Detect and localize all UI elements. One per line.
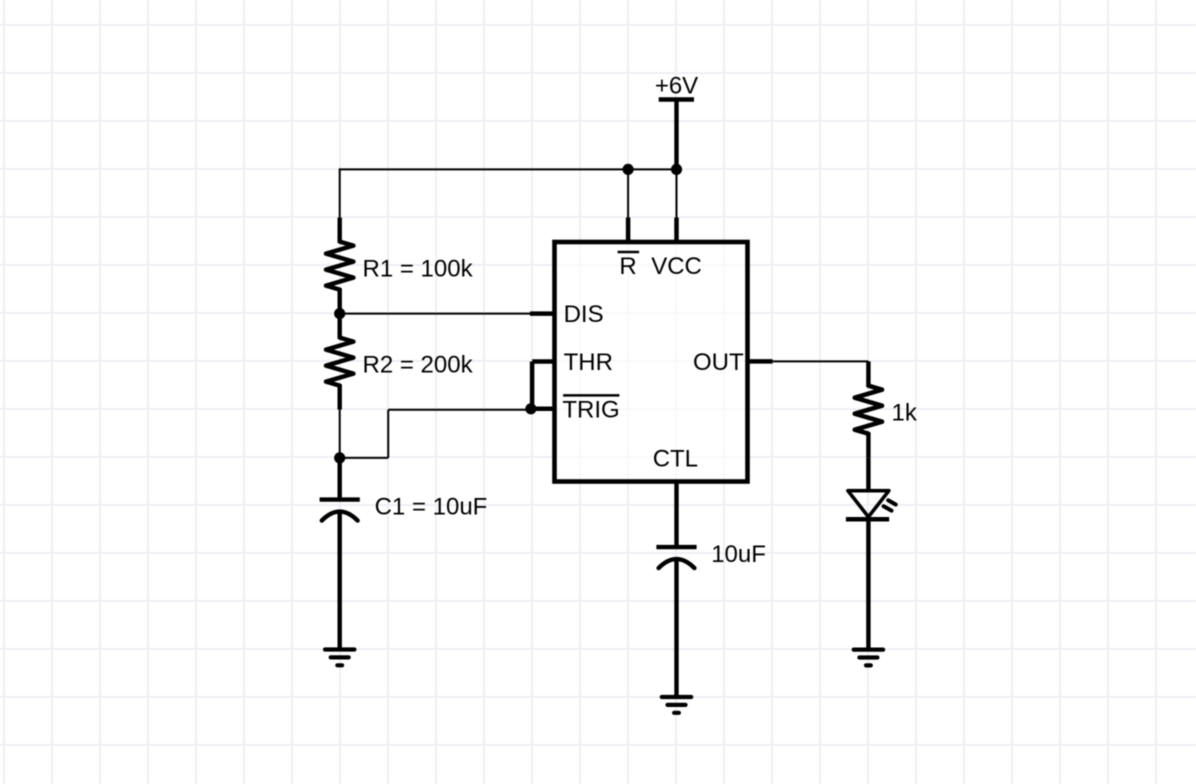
overline of TRIG label [563, 394, 619, 397]
svg-text:R2 = 200k: R2 = 200k [363, 352, 474, 379]
svg-text:R1 = 100k: R1 = 100k [363, 256, 474, 283]
resistor R2 zigzag [326, 338, 353, 386]
svg-text:C1 = 10uF: C1 = 10uF [375, 494, 488, 521]
capacitor C1 lead bottom [338, 513, 342, 650]
resistor R1 lead top [338, 218, 342, 243]
svg-text:DIS: DIS [564, 301, 604, 328]
jumper THR to TRIG [530, 362, 535, 410]
junction dot: R2/C1 [334, 452, 345, 463]
resistor R2 lead bottom [338, 385, 342, 410]
wire: R2 bottom vertical [339, 410, 341, 458]
wire: R1 top vertical [339, 168, 341, 218]
wire: VCC pin vertical [676, 169, 678, 219]
IC pin stub: reset [626, 218, 631, 244]
wire: trig jog horizontal lower [340, 457, 389, 459]
wire: trig horizontal to pin [388, 409, 531, 411]
wire: DIS horizontal [340, 313, 531, 315]
IC 555 body U1 [555, 242, 748, 482]
ground under LED [854, 650, 883, 666]
resistor R3 1k zigzag [855, 386, 882, 434]
junction dot: bus / VCC [671, 164, 682, 175]
capacitor C2 bottom curved plate [659, 559, 695, 568]
svg-text:CTL: CTL [653, 446, 698, 473]
LED D1 cathode bar [846, 517, 889, 522]
LED D1 ray 1 [888, 500, 896, 504]
resistor R2 lead top [338, 314, 342, 339]
IC pin stub: DIS [530, 311, 556, 316]
power +6V bar [659, 97, 694, 101]
LED D1 lead top [866, 458, 870, 492]
capacitor C1 bottom curved plate [322, 512, 358, 521]
junction dot: R1/R2/DIS [334, 308, 345, 319]
LED D1 lead bottom [866, 519, 870, 649]
LED D1 ray 2 [884, 506, 892, 510]
IC pin stub: TRIG [531, 407, 556, 412]
capacitor C1 lead top [338, 458, 342, 498]
wire: OUT horizontal [773, 360, 869, 362]
resistor R3 1k lead top [866, 361, 870, 386]
IC pin stub: OUT [746, 359, 773, 364]
svg-text:VCC: VCC [651, 253, 702, 280]
resistor R3 1k lead bottom [866, 433, 870, 458]
svg-text:1k: 1k [892, 400, 918, 427]
ground under C2 [662, 697, 691, 713]
resistor R1 zigzag [326, 242, 353, 290]
overline of R (reset pin label) [618, 251, 640, 254]
svg-text:TRIG: TRIG [562, 397, 619, 424]
resistor R1 lead bottom [338, 289, 342, 314]
ground under C1 [325, 650, 354, 666]
IC pin stub: VCC [674, 218, 679, 244]
wire: top horizontal bus from R1 to VCC [340, 168, 677, 170]
wire: trig jog vertical [387, 410, 389, 458]
IC pin stub: THR [532, 359, 556, 364]
wire: reset pin vertical [627, 169, 629, 219]
IC pin stub: CTL (merges into cap lead) [674, 482, 678, 547]
svg-text:+6V: +6V [655, 73, 698, 100]
capacitor C1 top plate [320, 497, 360, 501]
capacitor C2 top plate (CTL 10uF) [656, 545, 696, 549]
LED D1 triangle [848, 491, 889, 517]
svg-text:THR: THR [564, 349, 613, 376]
power +6V lead [674, 100, 678, 170]
junction dot: bus / reset [623, 164, 634, 175]
svg-text:R: R [619, 253, 636, 280]
junction dot: TRIG [525, 403, 536, 414]
svg-text:10uF: 10uF [711, 541, 766, 568]
svg-text:OUT: OUT [693, 349, 744, 376]
capacitor C2 lead bottom [674, 561, 678, 698]
